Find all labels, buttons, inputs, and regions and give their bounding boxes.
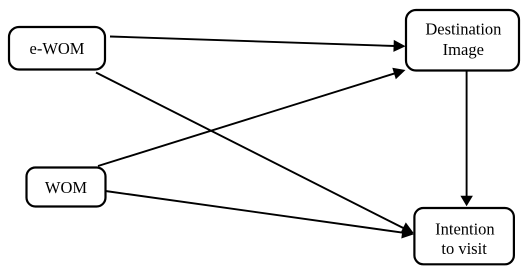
arrowhead e-WOM to Destination Image: [393, 40, 405, 52]
svg-text:WOM: WOM: [45, 178, 87, 197]
box Destination Image: [406, 10, 519, 71]
svg-text:e-WOM: e-WOM: [30, 39, 85, 58]
svg-text:to visit: to visit: [441, 239, 487, 258]
wire WOM to Destination Image: [98, 73, 395, 166]
svg-text:Destination: Destination: [425, 19, 501, 38]
arrowhead WOM to Destination Image: [392, 68, 405, 80]
box e-WOM: [9, 27, 105, 70]
wire e-WOM to Intention to visit: [96, 73, 404, 229]
arrowhead Destination Image to Intention to visit: [460, 196, 473, 207]
arrowhead e-WOM to Intention to visit: [400, 222, 413, 233]
wire WOM to Intention to visit: [106, 191, 404, 233]
svg-text:Image: Image: [443, 40, 484, 59]
wire Destination Image to Intention to visit: [466, 71, 468, 199]
svg-text:Intention: Intention: [435, 219, 495, 238]
arrowhead WOM to Intention to visit: [401, 227, 414, 239]
wire e-WOM to Destination Image: [110, 37, 395, 47]
box Intention to visit: [414, 208, 514, 264]
box WOM: [27, 168, 106, 207]
